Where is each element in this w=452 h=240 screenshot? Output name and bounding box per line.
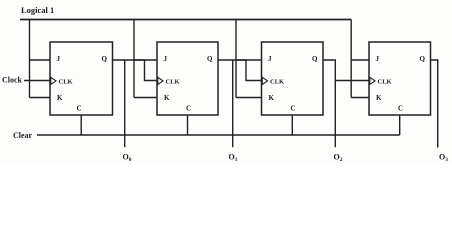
svg-text:C: C bbox=[186, 105, 191, 113]
svg-text:C: C bbox=[77, 105, 82, 113]
wire: output Q0 drop bbox=[124, 60, 126, 147]
output label O2 bbox=[334, 153, 343, 164]
output label O3 bbox=[439, 153, 448, 164]
wire: Logical-1 top rail bbox=[20, 19, 351, 21]
output label O1 bbox=[229, 153, 238, 164]
wire: U3 J feed bbox=[236, 59, 262, 61]
svg-text:Q: Q bbox=[102, 55, 108, 63]
wire: Logical-1 drop to U4 bbox=[350, 20, 352, 98]
svg-text:K: K bbox=[269, 94, 275, 102]
wire: Clear rail bbox=[37, 134, 400, 136]
wire: U4 K feed bbox=[351, 97, 369, 99]
svg-text:Clock: Clock bbox=[2, 76, 23, 85]
svg-text:Q: Q bbox=[312, 55, 318, 63]
net label: Logical 1 bbox=[21, 5, 54, 15]
flip-flop U1 bbox=[50, 42, 113, 115]
wire: U2 J feed bbox=[134, 59, 157, 61]
wire: U3 Q to U4 CLK bbox=[323, 60, 369, 81]
svg-text:C: C bbox=[398, 105, 403, 113]
svg-text:K: K bbox=[57, 94, 63, 102]
wire: U1 Q to U2 CLK bbox=[113, 60, 158, 81]
svg-text:J: J bbox=[57, 55, 61, 63]
output label O0 bbox=[123, 153, 132, 164]
flip-flop U2 bbox=[157, 42, 218, 115]
svg-text:J: J bbox=[268, 55, 272, 63]
svg-text:CLK: CLK bbox=[378, 79, 392, 86]
wire: output Q2 drop bbox=[334, 81, 336, 148]
svg-text:O2: O2 bbox=[334, 153, 343, 164]
wire: U4 Q output drop Q3 bbox=[431, 60, 438, 148]
wire: U1 K feed bbox=[30, 97, 51, 99]
flip-flop U4 bbox=[369, 42, 431, 115]
svg-text:Q: Q bbox=[420, 55, 426, 63]
svg-text:O3: O3 bbox=[439, 153, 448, 164]
flip-flop U3 bbox=[262, 42, 324, 115]
wire: Clock to U1 CLK bbox=[24, 80, 50, 82]
svg-text:O1: O1 bbox=[229, 153, 238, 164]
wire: U3 K feed bbox=[236, 97, 262, 99]
wire: U2 K feed bbox=[134, 97, 157, 99]
wire: U4 J feed bbox=[351, 59, 369, 61]
svg-text:CLK: CLK bbox=[166, 79, 180, 86]
svg-text:J: J bbox=[164, 55, 168, 63]
svg-text:C: C bbox=[291, 105, 296, 113]
svg-text:CLK: CLK bbox=[59, 79, 73, 86]
svg-text:J: J bbox=[376, 55, 380, 63]
wire: U1 C drop bbox=[80, 115, 82, 135]
wire: Logical-1 drop to U2 bbox=[133, 20, 135, 98]
svg-text:K: K bbox=[376, 94, 382, 102]
svg-text:Logical 1: Logical 1 bbox=[21, 5, 54, 15]
net label: Clear bbox=[13, 131, 33, 140]
svg-text:Clear: Clear bbox=[13, 131, 33, 140]
svg-text:CLK: CLK bbox=[270, 79, 284, 86]
wire: U2 C drop bbox=[187, 115, 189, 135]
wire: U4 C drop bbox=[399, 115, 401, 135]
wire: Logical-1 drop to U3 bbox=[235, 20, 237, 98]
wire: output Q1 drop bbox=[232, 60, 234, 147]
svg-text:Q: Q bbox=[207, 55, 213, 63]
net label: Clock bbox=[2, 76, 23, 85]
wire: Logical-1 drop to U1 bbox=[29, 20, 31, 98]
wire: U1 J feed bbox=[30, 59, 51, 61]
wire: U3 C drop bbox=[291, 115, 293, 135]
svg-text:K: K bbox=[164, 94, 170, 102]
wire: U2 Q to U3 CLK bbox=[218, 60, 262, 81]
svg-text:O0: O0 bbox=[123, 153, 132, 164]
